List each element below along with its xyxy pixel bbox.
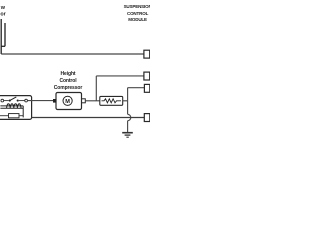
wire hop over bus (128, 114, 131, 120)
wire motor to junction (85, 100, 100, 102)
switch arm (10, 97, 17, 101)
motor left terminal (filled tab) (53, 99, 56, 103)
wire down from junction toward ground (127, 101, 129, 115)
wire (19, 100, 25, 102)
svg-text:CONTROL: CONTROL (127, 11, 149, 16)
svg-text:Height: Height (61, 71, 76, 77)
svg-text:M: M (65, 99, 70, 105)
switch fixed contact dot (9, 100, 11, 102)
svg-text:SUSPENSION: SUSPENSION (124, 4, 150, 9)
wire to suspension control module pin 2 (96, 75, 144, 77)
motor M symbol circle (63, 96, 72, 105)
coil right lead down (22, 106, 24, 118)
coil core line upper (0, 105, 23, 107)
coil core line lower (0, 107, 23, 109)
svg-text:Compressor: Compressor (54, 85, 83, 91)
text Height Control Compressor (54, 71, 83, 91)
wire bus to suspension control module pin 1 (1, 53, 144, 55)
node junction vertical up at x=96 (95, 76, 97, 101)
svg-text:Control: Control (59, 78, 77, 84)
connector pin box 4 (144, 114, 150, 122)
height control compressor box (56, 93, 82, 110)
resistor lead wire right (19, 115, 23, 117)
svg-text:or: or (0, 11, 6, 17)
fuse F1 (narrow rectangle, cut off at left edge) (1, 19, 5, 54)
wire to suspension control module pin 3 (128, 87, 145, 89)
wire down to ground (127, 121, 129, 133)
node junction vertical up at x=127.6 (127, 88, 129, 101)
svg-text:MODULE: MODULE (128, 17, 147, 22)
relay coil L1 (arcs) (7, 104, 21, 109)
relay box (height control relay, cut off at left edge) (0, 96, 32, 120)
ground symbol (122, 132, 133, 134)
switch fixed contact dot right (17, 100, 19, 102)
wire from relay switch to compressor motor (27, 100, 53, 102)
text SUSPENSION CONTROL MODULE (124, 4, 152, 22)
relay switch contact terminal (open circle left) (1, 99, 4, 102)
wire (4, 100, 9, 102)
resistor R2 box with zigzag (100, 96, 123, 105)
resistor R2 zigzag element (102, 99, 122, 103)
resistor R1 (small box) (9, 114, 20, 118)
connector pin box 2 (144, 72, 150, 80)
motor right terminal (open tab) (82, 99, 86, 103)
bottom bus wire from relay to connector pin box 4 (32, 117, 145, 119)
svg-text:w: w (0, 5, 6, 11)
wire resistor to junction (123, 100, 128, 102)
connector pin box 1 (suspension control module) (144, 50, 150, 58)
connector pin box 3 (144, 84, 149, 92)
relay switch terminal (open circle right) (25, 99, 28, 102)
resistor lead wire left (0, 115, 9, 117)
